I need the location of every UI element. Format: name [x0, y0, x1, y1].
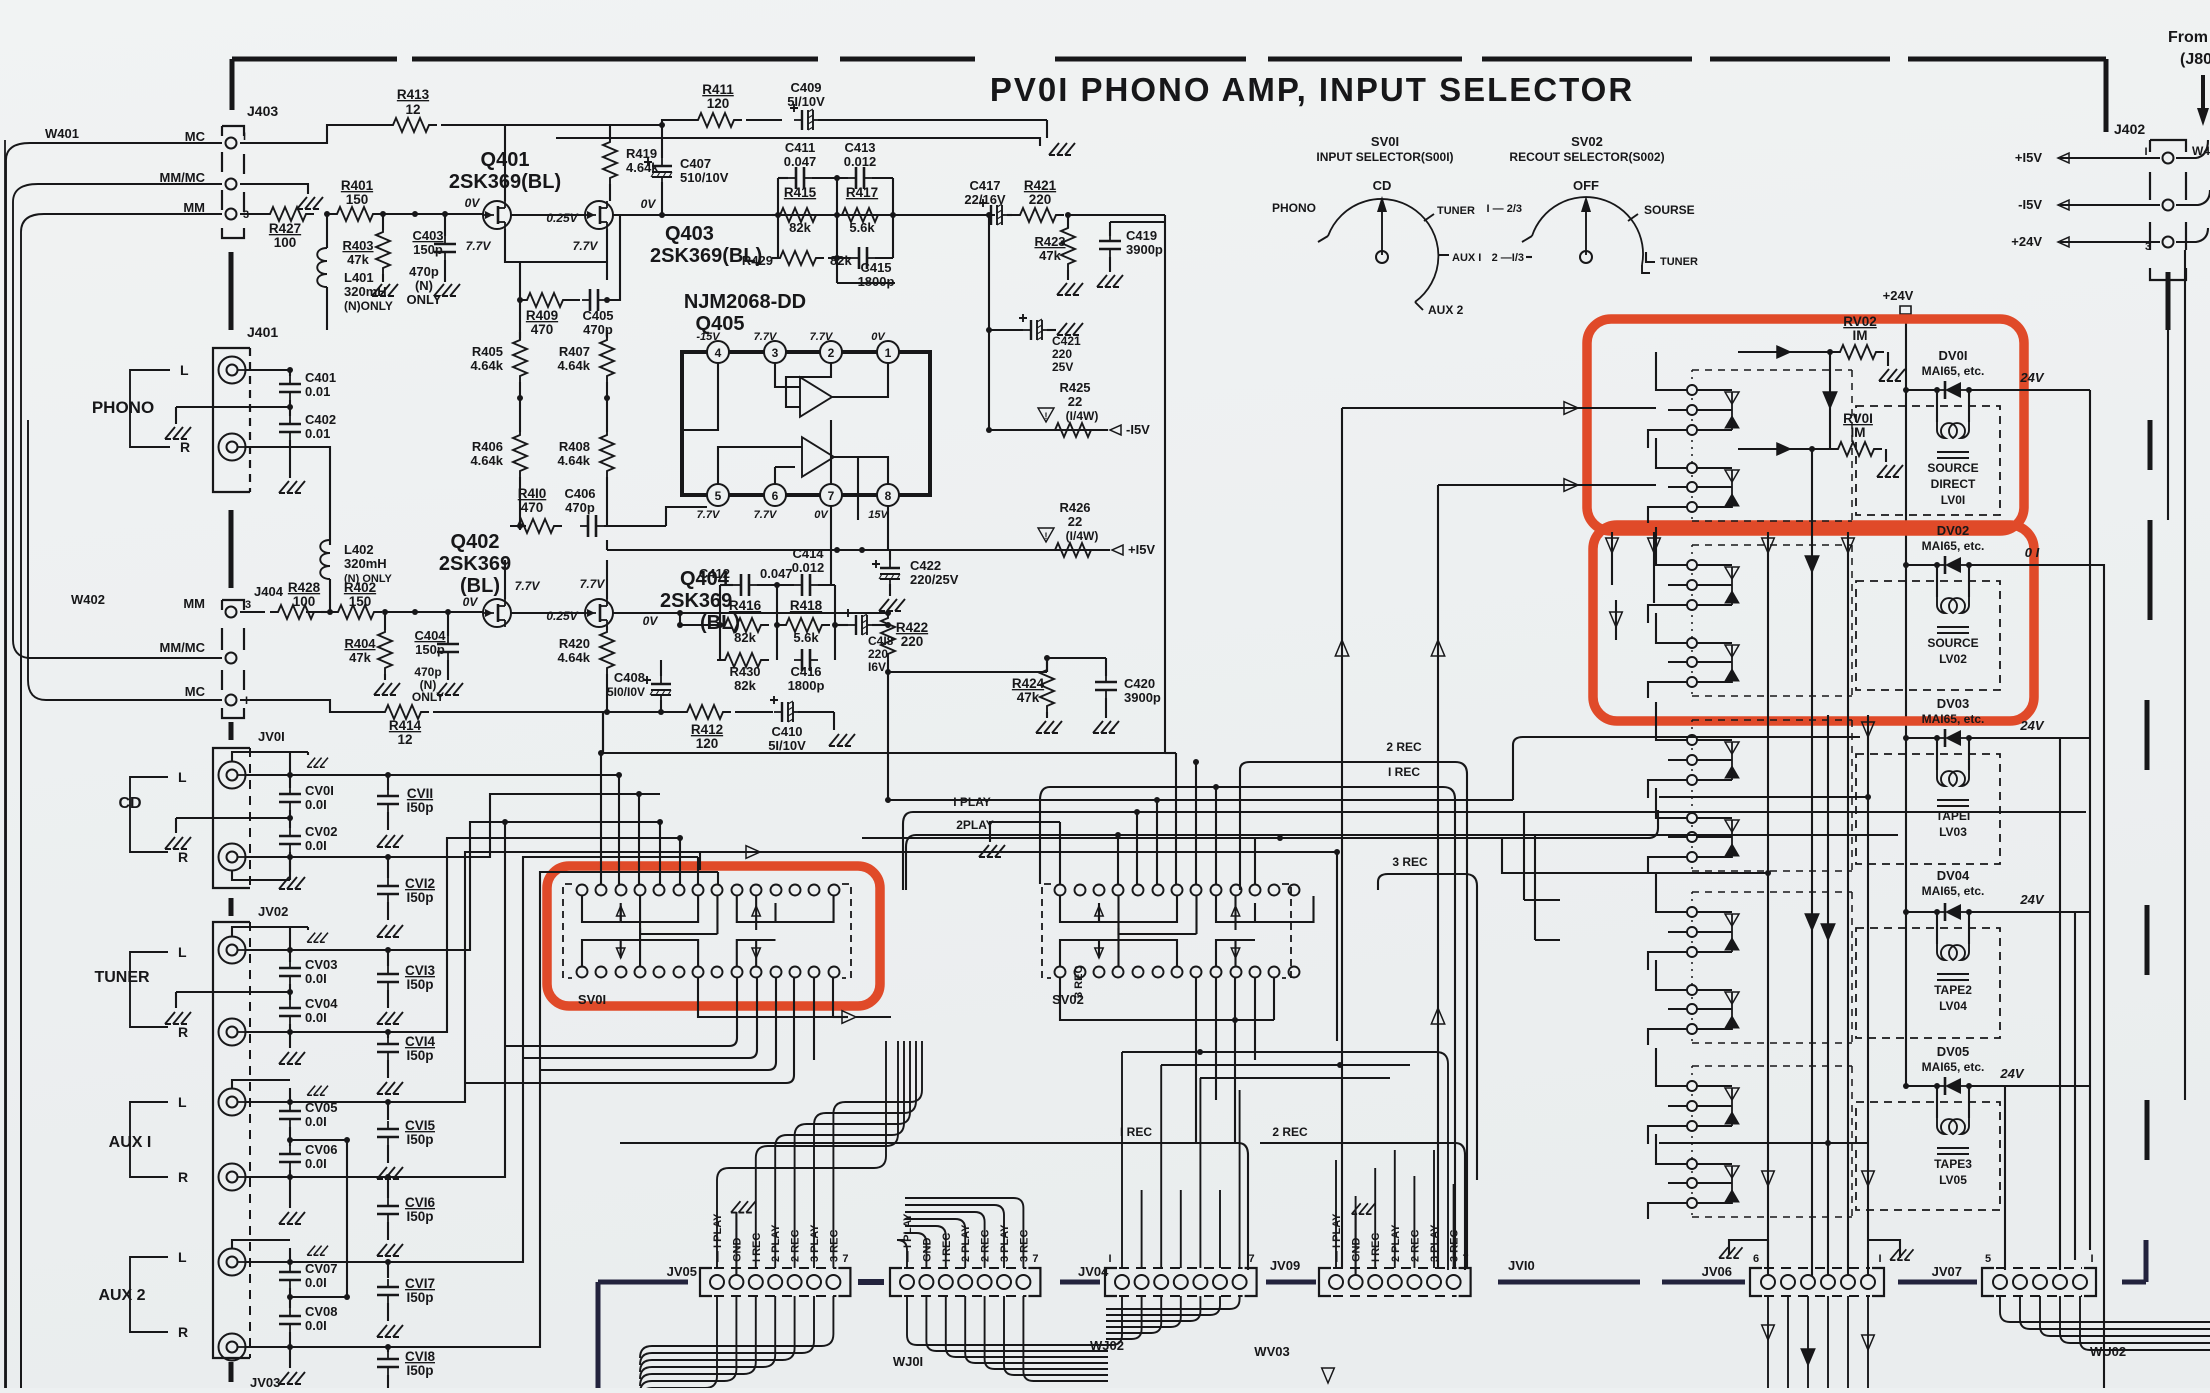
- svg-text:4.64k: 4.64k: [470, 453, 503, 468]
- svg-text:2: 2: [828, 346, 835, 360]
- bundle link JV05-JV04: [858, 1279, 884, 1285]
- svg-text:INPUT SELECTOR(S00I): INPUT SELECTOR(S00I): [1316, 150, 1453, 164]
- svg-text:I50p: I50p: [406, 1048, 433, 1063]
- ground at R424: [1036, 721, 1062, 733]
- divider bar above JV01: [229, 722, 234, 740]
- wire pin8 down: [887, 506, 889, 550]
- capacitor CV03: [289, 935, 291, 962]
- resistor RV02: [1832, 345, 1884, 359]
- svg-text:SOURCE: SOURCE: [1927, 461, 1978, 475]
- svg-text:47k: 47k: [1017, 690, 1040, 705]
- svg-text:R422: R422: [896, 620, 928, 635]
- wire hor 852: [913, 851, 1337, 853]
- selector SV01 arrow: [1381, 208, 1383, 255]
- svg-text:22/16V: 22/16V: [964, 192, 1006, 207]
- svg-text:CV08: CV08: [305, 1304, 338, 1319]
- svg-text:I: I: [243, 131, 246, 143]
- wire PHONO R tip: [246, 447, 331, 545]
- capacitor C421 electrolytic: [1039, 329, 1041, 331]
- connector JV02 body: [213, 922, 250, 1358]
- connector J403 pin 2 (MM/MC): [226, 179, 237, 190]
- wire aux node bus: [346, 1140, 348, 1297]
- svg-text:100: 100: [274, 235, 297, 250]
- cable bundle WU02: [2000, 1296, 2210, 1322]
- svg-text:C406: C406: [564, 486, 595, 501]
- svg-text:CV02: CV02: [305, 824, 338, 839]
- PHONO ground wire: [176, 406, 290, 408]
- ground at C419: [1097, 275, 1123, 287]
- selector SV01 hub: [1376, 251, 1388, 263]
- svg-text:DV02: DV02: [1937, 523, 1970, 538]
- wire 3rec top: [1378, 874, 1477, 1041]
- svg-text:24V: 24V: [2019, 892, 2044, 907]
- switch cluster TAPE2: [1692, 891, 1852, 893]
- svg-text:5.6k: 5.6k: [849, 220, 875, 235]
- svg-text:5I/10V: 5I/10V: [787, 94, 825, 109]
- svg-text:R: R: [178, 1024, 188, 1040]
- capacitor C416: [794, 659, 802, 661]
- wire R401 to Q401: [385, 213, 483, 215]
- svg-text:150p: 150p: [413, 242, 443, 257]
- svg-text:R428: R428: [288, 580, 321, 595]
- svg-text:R424: R424: [1012, 676, 1045, 691]
- svg-text:TUNER: TUNER: [94, 969, 150, 986]
- svg-text:CVI5: CVI5: [405, 1118, 436, 1133]
- svg-text:LV02: LV02: [1939, 652, 1967, 666]
- wire W401 MC: [6, 143, 222, 1388]
- svg-text:C413: C413: [844, 140, 875, 155]
- ground at MM/MC: [297, 197, 323, 209]
- capacitor CV15: [387, 1102, 389, 1120]
- inductor L401: [326, 214, 328, 248]
- svg-text:120: 120: [696, 736, 719, 751]
- svg-text:JV09: JV09: [1270, 1258, 1300, 1273]
- CD bracket: [130, 777, 168, 852]
- ground jack A1: [307, 1086, 328, 1096]
- svg-text:47k: 47k: [349, 650, 371, 665]
- wire CD L long: [388, 775, 619, 884]
- svg-text:0V: 0V: [465, 196, 481, 210]
- svg-text:MM/MC: MM/MC: [160, 170, 206, 185]
- rail +24V vertical: [1905, 314, 1907, 1086]
- svg-text:R426: R426: [1059, 500, 1090, 515]
- wire C406 right: [604, 525, 666, 527]
- wire C410 to gnd: [833, 712, 835, 730]
- svg-text:(I/4W): (I/4W): [1066, 529, 1099, 543]
- capacitor C413: [848, 177, 856, 179]
- wire W402 MC to J404: [28, 420, 222, 700]
- svg-text:WU02: WU02: [2090, 1344, 2126, 1359]
- junction CV05: [287, 1099, 293, 1105]
- op-amp A triangle: [800, 377, 832, 417]
- svg-text:L: L: [180, 362, 189, 378]
- svg-text:R417: R417: [846, 185, 878, 200]
- open arrows into cluster2: [1606, 538, 1619, 553]
- svg-text:4.64k: 4.64k: [557, 453, 590, 468]
- svg-text:MM: MM: [183, 200, 205, 215]
- TUNER bracket: [130, 952, 168, 1027]
- svg-text:24V: 24V: [2019, 370, 2044, 385]
- selector SV01 arc: [1328, 199, 1438, 302]
- svg-text:JV07: JV07: [1932, 1264, 1962, 1279]
- svg-text:0.0I: 0.0I: [305, 1010, 327, 1025]
- svg-text:OFF: OFF: [1573, 178, 1599, 193]
- wire C409 down to ground: [1046, 120, 1048, 138]
- wire 1rec top: [1040, 787, 1455, 1041]
- wire aux2 node: [290, 1296, 347, 1298]
- wire sw1b to RV01: [1738, 448, 1830, 450]
- cable bundle WJ01 below: [640, 1296, 717, 1393]
- resistor R421: [1007, 214, 1012, 216]
- svg-text:220/25V: 220/25V: [910, 572, 959, 587]
- ground jack TL: [307, 933, 328, 943]
- svg-text:100: 100: [293, 594, 316, 609]
- svg-text:DIRECT: DIRECT: [1931, 477, 1976, 491]
- junction drops: [616, 772, 622, 778]
- svg-text:I50p: I50p: [406, 977, 433, 992]
- vertical bus 1868 down: [1867, 715, 1869, 1282]
- bus nest tape2: [890, 799, 892, 801]
- jack hook AUX2 L: [246, 1261, 389, 1263]
- junction R401 out: [412, 211, 418, 217]
- wire CV02 gnd: [289, 852, 291, 872]
- junction MM node: [324, 211, 330, 217]
- svg-text:C419: C419: [1126, 228, 1157, 243]
- svg-text:RV02: RV02: [1843, 314, 1877, 329]
- svg-text:CV03: CV03: [305, 957, 338, 972]
- resistor RV01: [1830, 442, 1882, 456]
- svg-text:24V: 24V: [2019, 718, 2044, 733]
- wire 1play curve: [903, 812, 2086, 890]
- svg-text:MM/MC: MM/MC: [160, 640, 206, 655]
- svg-text:!: !: [1045, 411, 1048, 421]
- svg-text:+24V: +24V: [1883, 288, 1914, 303]
- svg-text:47k: 47k: [347, 252, 369, 267]
- svg-text:I: I: [2144, 146, 2147, 158]
- svg-text:0.0I: 0.0I: [305, 1318, 327, 1333]
- relay LV05 dashed box: [1856, 1102, 2000, 1210]
- svg-text:C420: C420: [1124, 676, 1155, 691]
- svg-text:C408: C408: [614, 670, 645, 685]
- wire sv02 pin drops up: [1118, 753, 1255, 884]
- op-amp internal wiring: [680, 363, 888, 520]
- wire MM/MC to ground: [240, 184, 308, 194]
- svg-text:I50p: I50p: [406, 1209, 433, 1224]
- connector J403 pin 1 (MC): [226, 138, 237, 149]
- bundle link JV10-JV06: [1498, 1280, 1745, 1285]
- svg-text:L401: L401: [344, 270, 374, 285]
- svg-text:L: L: [178, 1249, 187, 1265]
- svg-text:R425: R425: [1059, 380, 1090, 395]
- svg-text:CD: CD: [1373, 178, 1392, 193]
- connector JV06: [1750, 1268, 1762, 1296]
- jack hook AUX2 R: [246, 1346, 389, 1348]
- wire DV04 24V corner: [2075, 912, 2090, 1260]
- svg-text:220: 220: [868, 647, 888, 661]
- svg-text:2 REC: 2 REC: [1272, 1125, 1308, 1139]
- svg-text:7.7V: 7.7V: [754, 509, 778, 521]
- capacitor C414: [794, 584, 802, 586]
- svg-text:7.7V: 7.7V: [515, 579, 541, 593]
- capacitor CV07: [289, 1248, 291, 1264]
- svg-text:R407: R407: [559, 344, 590, 359]
- svg-text:7.7V: 7.7V: [697, 509, 721, 521]
- svg-text:R420: R420: [559, 636, 590, 651]
- junction top node: [659, 122, 665, 128]
- switch cluster TAPE1: [1692, 719, 1852, 721]
- svg-text:I50p: I50p: [406, 1363, 433, 1378]
- wire DV05 right: [2004, 1086, 2006, 1270]
- svg-text:2 REC: 2 REC: [1409, 1230, 1421, 1262]
- rail Q401 source: [510, 262, 607, 340]
- svg-text:0V: 0V: [641, 197, 657, 211]
- connector JV05: [700, 1268, 712, 1296]
- ground at PHONO: [165, 427, 191, 439]
- junction CV03: [287, 947, 293, 953]
- svg-text:R412: R412: [691, 722, 723, 737]
- warning triangle R425: [1038, 408, 1054, 422]
- svg-text:(N)ONLY: (N)ONLY: [344, 299, 393, 313]
- svg-text:+24V: +24V: [2011, 234, 2042, 249]
- ground right of C409: [1049, 143, 1075, 155]
- ground left above JV06: [1729, 1240, 1768, 1260]
- selector SV02 arrow: [1585, 208, 1587, 255]
- svg-text:C421: C421: [1052, 334, 1081, 348]
- connector J401 body: [213, 348, 250, 492]
- ground at C422: [879, 599, 905, 611]
- svg-text:+I5V: +I5V: [2015, 150, 2042, 165]
- junction R402 out: [412, 609, 418, 615]
- op-amp pin 2 top: [820, 341, 842, 363]
- svg-text:0.0I: 0.0I: [305, 1156, 327, 1171]
- svg-text:IM: IM: [1853, 328, 1868, 343]
- jack hook JV02 L: [246, 949, 389, 951]
- svg-text:CVI6: CVI6: [405, 1195, 436, 1210]
- svg-text:I: I: [2090, 1253, 2093, 1265]
- capacitor CV04: [289, 984, 291, 1000]
- wire rec2 lower: [1260, 1143, 1465, 1270]
- svg-text:150: 150: [349, 594, 372, 609]
- svg-text:CVII: CVII: [407, 786, 433, 801]
- resistor R404: [384, 612, 386, 630]
- svg-text:12: 12: [405, 102, 420, 117]
- svg-text:3 PLAY: 3 PLAY: [1429, 1224, 1441, 1262]
- svg-text:MM: MM: [183, 596, 205, 611]
- switch SV02 wiring: [1060, 896, 1177, 922]
- capacitor CV14: [387, 1032, 389, 1038]
- RCA jack PHONO L: [219, 357, 246, 384]
- wire R422 out: [888, 671, 1047, 673]
- junction tape feeds: [1865, 794, 1871, 800]
- ground at R423: [1057, 283, 1083, 295]
- ground jack A2: [307, 1246, 328, 1256]
- svg-text:CV07: CV07: [305, 1261, 338, 1276]
- resistor R426: [1047, 543, 1099, 557]
- capacitor C403: [444, 214, 446, 236]
- svg-text:From I: From I: [2168, 29, 2210, 46]
- wire PHONO L tip: [246, 369, 291, 371]
- wire AUX1 R long: [388, 822, 505, 1177]
- red highlight box SV01: [547, 866, 880, 1006]
- wire R429 row: [772, 257, 778, 259]
- svg-text:8: 8: [885, 489, 892, 503]
- junction R407/R408: [604, 395, 610, 401]
- page left inner border: [20, 655, 22, 1388]
- svg-text:0.047: 0.047: [784, 154, 817, 169]
- resistor R410: [510, 519, 562, 533]
- svg-text:7.7V: 7.7V: [573, 239, 599, 253]
- svg-text:220: 220: [1029, 192, 1052, 207]
- ground at C404: [437, 683, 463, 695]
- resistor R417: [834, 208, 886, 222]
- svg-text:2 REC: 2 REC: [1386, 740, 1422, 754]
- ground RV01: [1877, 465, 1903, 477]
- svg-text:RECOUT SELECTOR(S002): RECOUT SELECTOR(S002): [1509, 150, 1664, 164]
- svg-text:7: 7: [828, 489, 835, 503]
- svg-text:R409: R409: [526, 308, 558, 323]
- connector J404 body: [222, 600, 244, 718]
- svg-text:CVI3: CVI3: [405, 963, 436, 978]
- svg-text:MAI65, etc.: MAI65, etc.: [1922, 539, 1985, 553]
- svg-text:220: 220: [1052, 347, 1072, 361]
- svg-text:MAI65, etc.: MAI65, etc.: [1922, 884, 1985, 898]
- svg-text:4.64k: 4.64k: [470, 358, 503, 373]
- svg-text:R402: R402: [344, 580, 376, 595]
- capacitor CV16: [387, 1177, 389, 1198]
- svg-text:0V: 0V: [643, 614, 659, 628]
- wire Q404 source: [606, 560, 608, 599]
- jack hook JV01 R: [246, 856, 389, 858]
- svg-text:C404: C404: [414, 628, 446, 643]
- svg-text:I REC: I REC: [1370, 1233, 1382, 1262]
- svg-text:R427: R427: [269, 221, 301, 236]
- svg-text:L: L: [178, 1094, 187, 1110]
- resistor R429: [772, 251, 824, 265]
- resistor R405: [513, 332, 527, 384]
- svg-text:470: 470: [531, 322, 554, 337]
- svg-text:C401: C401: [305, 370, 336, 385]
- svg-text:2 —I/3: 2 —I/3: [1492, 252, 1524, 264]
- svg-text:C417: C417: [969, 178, 1000, 193]
- resistor R430: [717, 653, 769, 667]
- svg-text:5: 5: [715, 489, 722, 503]
- capacitor CV08: [289, 1288, 291, 1308]
- svg-text:7: 7: [1463, 1253, 1469, 1265]
- wire hor 800: [888, 799, 1513, 801]
- wire sv02 bottom drops: [1196, 978, 1274, 1143]
- page left border line: [4, 140, 6, 1388]
- svg-text:I REC: I REC: [751, 1233, 763, 1262]
- resistor R416: [717, 618, 769, 632]
- svg-text:CV0I: CV0I: [305, 783, 334, 798]
- svg-text:JV06: JV06: [1702, 1264, 1732, 1279]
- svg-text:LV05: LV05: [1939, 1173, 1967, 1187]
- svg-text:R423: R423: [1034, 234, 1065, 249]
- bundle link left JV05: [598, 1280, 688, 1285]
- svg-text:C412: C412: [699, 566, 730, 581]
- svg-text:3 REC: 3 REC: [1392, 855, 1428, 869]
- selector SV02 arc: [1532, 197, 1643, 265]
- capacitor CV18: [387, 1347, 389, 1352]
- svg-text:-I5V: -I5V: [2018, 197, 2042, 212]
- wire box lower to Q404: [680, 624, 717, 626]
- wire Q402 drain: [504, 560, 506, 599]
- capacitor C405: [582, 299, 590, 301]
- svg-text:DV03: DV03: [1937, 696, 1970, 711]
- svg-text:CV06: CV06: [305, 1142, 338, 1157]
- capacitor C409 electrolytic: [746, 119, 782, 121]
- svg-text:C422: C422: [910, 558, 941, 573]
- svg-text:7.7V: 7.7V: [466, 239, 492, 253]
- wire arrow to SV02: [700, 851, 913, 853]
- svg-text:82k: 82k: [830, 253, 852, 268]
- wire W401 MM: [21, 214, 222, 1388]
- relay LV05: [1906, 1085, 1937, 1087]
- resistor R413: [385, 118, 437, 132]
- wire R421 to C419: [1110, 215, 1165, 222]
- wire AUX1 L long: [388, 852, 740, 1102]
- svg-text:7.7V: 7.7V: [810, 331, 834, 343]
- capacitor CV12: [387, 857, 389, 878]
- junction CV01: [287, 772, 293, 778]
- wire DV01 24V down: [2089, 390, 2091, 1250]
- switch cluster TAPE3: [1692, 1065, 1852, 1067]
- svg-text:CVI2: CVI2: [405, 876, 435, 891]
- wire phono out drop: [601, 712, 1165, 884]
- resistor R403: [382, 214, 384, 230]
- wire R409 C405 row: [520, 215, 620, 300]
- svg-text:(N): (N): [415, 278, 433, 293]
- wire +24V: [2060, 241, 2160, 243]
- svg-text:24V: 24V: [1999, 1066, 2024, 1081]
- switch matrix SV02: [1055, 885, 1066, 896]
- wire tape3 feed: [1659, 1142, 1868, 1144]
- resistor R401: [329, 207, 381, 221]
- svg-text:5I0/I0V: 5I0/I0V: [607, 685, 645, 699]
- svg-text:R401: R401: [341, 178, 374, 193]
- feedback box upper: [778, 178, 893, 258]
- svg-text:0.25V: 0.25V: [546, 211, 578, 225]
- connector J403 pin 3 (MM): [226, 209, 237, 220]
- svg-text:2 REC: 2 REC: [980, 1230, 992, 1262]
- capacitor C417 electrolytic: [983, 214, 991, 216]
- capacitor CV06: [289, 1127, 291, 1146]
- svg-text:0 I: 0 I: [2025, 545, 2040, 560]
- wire hor 838: [862, 837, 1502, 839]
- capacitor CV02: [289, 810, 291, 828]
- resistor R423: [1067, 215, 1069, 228]
- ground RV02: [1879, 369, 1905, 381]
- bundle link JV09-JV10: [1266, 1280, 1316, 1285]
- jack hook JV01 L: [245, 774, 388, 776]
- resistor R414: [240, 700, 380, 712]
- svg-text:25V: 25V: [1052, 360, 1073, 374]
- svg-text:0.012: 0.012: [844, 154, 877, 169]
- svg-text:DV05: DV05: [1937, 1044, 1970, 1059]
- wire sv02 lower bus: [1060, 978, 1274, 1020]
- svg-text:0.0I: 0.0I: [305, 1114, 327, 1129]
- wire MC to R413 node: [240, 125, 385, 143]
- svg-text:0.01: 0.01: [305, 384, 330, 399]
- resistor R425: [1047, 423, 1099, 437]
- wire 2play curve: [906, 835, 1898, 890]
- CD ground: [176, 817, 290, 819]
- wire Q404 out to C418 row: [860, 612, 888, 614]
- bus nest tape1b: [1502, 810, 1658, 838]
- svg-text:1: 1: [885, 346, 892, 360]
- wire R415 row: [772, 214, 778, 216]
- svg-text:TUNER: TUNER: [1660, 256, 1698, 268]
